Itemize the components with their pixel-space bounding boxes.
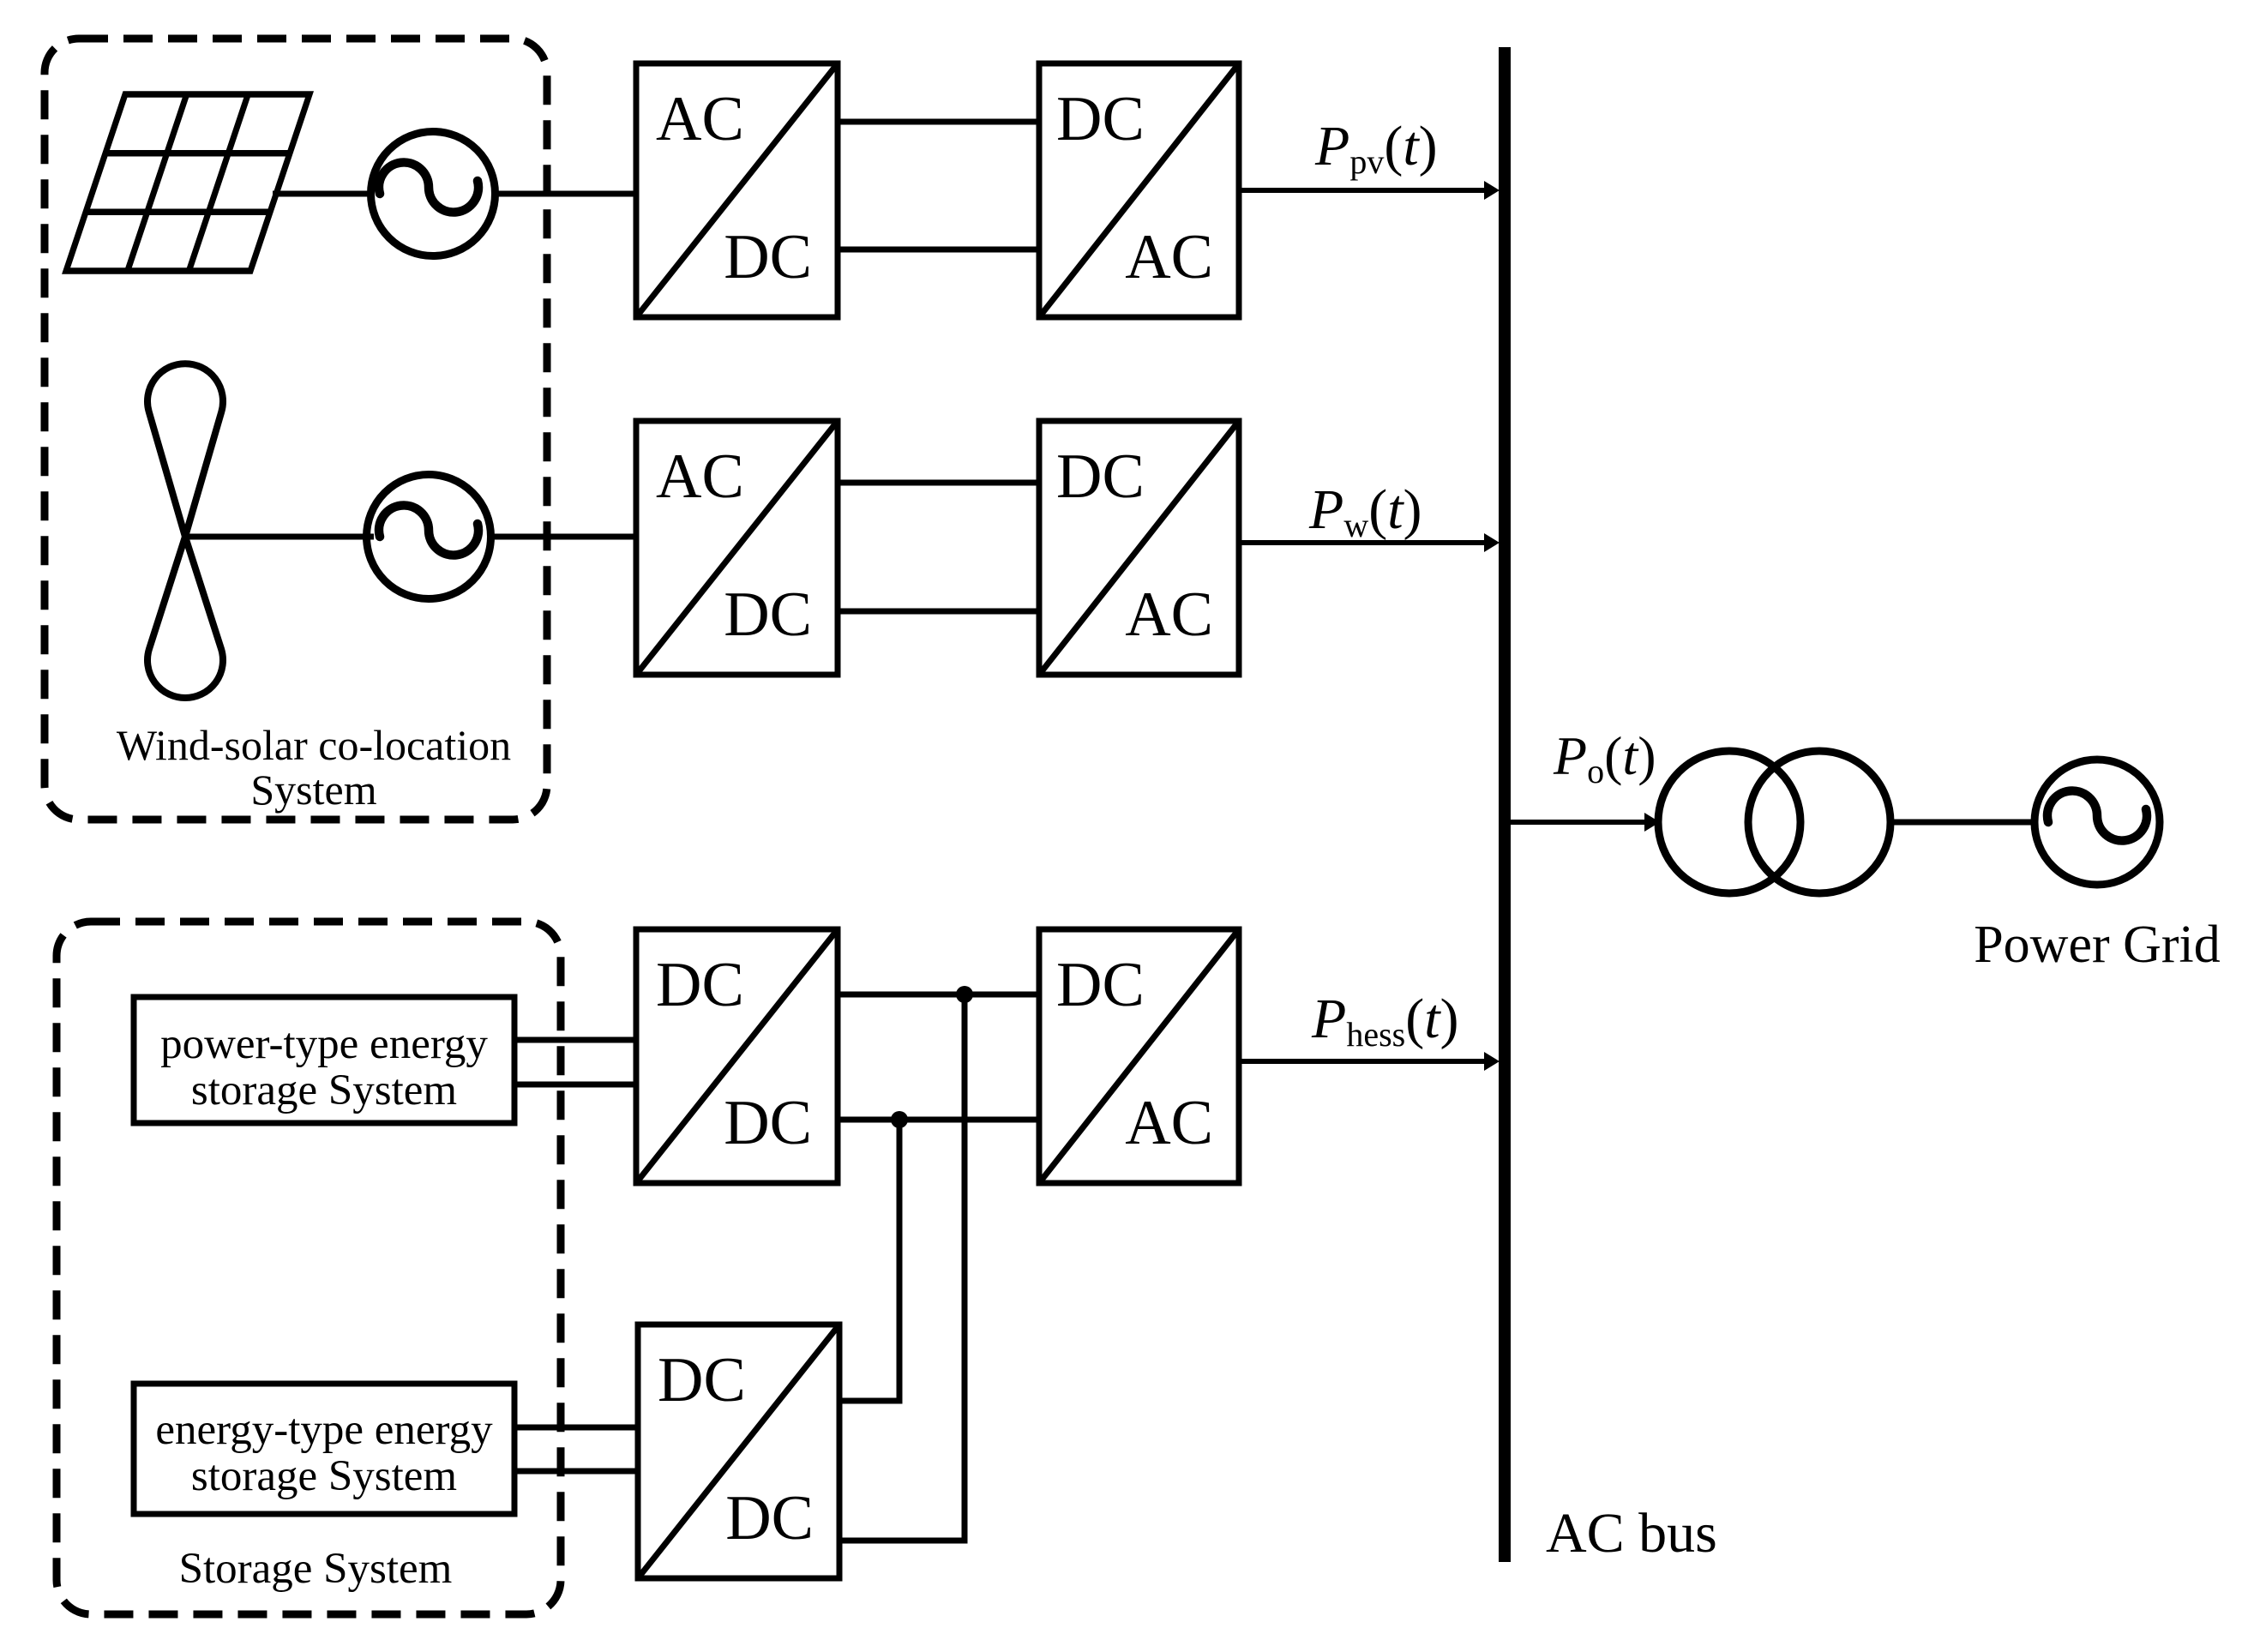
wires: energy-type block to U7 xyxy=(514,1425,640,1431)
svg-text:Storage System: Storage System xyxy=(179,1545,453,1593)
junction node J1 xyxy=(956,986,973,1003)
DC link wires U1-U2 xyxy=(838,119,1039,125)
wire with arrow: P_o(t) from bus to transformer xyxy=(1511,820,1647,825)
wire: J1 down to U7 lower output xyxy=(838,994,965,1541)
converter U6 DC/AC (HESS inverter) xyxy=(1039,929,1239,1183)
wire: G1 to converter U1 xyxy=(495,191,638,197)
generator G1 (PV AC source) xyxy=(371,132,496,256)
svg-text:DC: DC xyxy=(724,222,812,292)
svg-text:DC: DC xyxy=(1056,442,1145,512)
svg-text:AC: AC xyxy=(1125,222,1213,292)
wires: power-type block to U5 xyxy=(514,1037,638,1043)
DC bus wires U5-U6 xyxy=(838,992,1039,998)
svg-text:Wind-solar co-location: Wind-solar co-location xyxy=(117,721,511,769)
wire with arrow: P_pv(t) to AC bus xyxy=(1239,188,1487,193)
wire with arrow: P_w(t) to AC bus xyxy=(1239,540,1487,545)
AC bus bar xyxy=(1499,47,1511,1562)
power-type energy storage block xyxy=(134,997,514,1123)
svg-text:Po(t): Po(t) xyxy=(1553,725,1656,790)
dashed enclosure: Storage System xyxy=(57,922,561,1614)
converter U1 AC/DC (PV rectifier) xyxy=(636,63,838,317)
converter U7 DC/DC (energy-type chopper) xyxy=(638,1325,839,1578)
generator G2 (wind AC source) xyxy=(367,475,491,599)
dashed enclosure: Wind-solar co-location System xyxy=(45,39,547,820)
svg-text:DC: DC xyxy=(724,580,812,650)
svg-text:DC: DC xyxy=(658,1345,746,1415)
energy-type energy storage block xyxy=(134,1384,514,1514)
svg-text:AC: AC xyxy=(656,84,744,154)
svg-text:DC: DC xyxy=(724,1088,812,1158)
svg-text:AC: AC xyxy=(1125,580,1213,650)
wind turbine WT blades xyxy=(147,363,223,698)
svg-text:System: System xyxy=(250,766,376,814)
svg-text:energy-type energy: energy-type energy xyxy=(155,1406,493,1454)
svg-text:AC bus: AC bus xyxy=(1546,1502,1717,1565)
svg-text:DC: DC xyxy=(1056,950,1145,1020)
svg-text:AC: AC xyxy=(656,442,744,512)
utility grid AC source G3 xyxy=(2035,760,2160,885)
solar panel PV array xyxy=(66,94,310,271)
converter U5 DC/DC (power-type chopper) xyxy=(636,929,838,1183)
wire with arrow: P_hess(t) to AC bus xyxy=(1239,1059,1487,1064)
junction node J2 xyxy=(891,1111,908,1128)
svg-text:power-type energy: power-type energy xyxy=(160,1020,488,1068)
converter U4 DC/AC (wind inverter) xyxy=(1039,421,1239,675)
svg-text:DC: DC xyxy=(1056,84,1145,154)
wire: panel to generator G1 xyxy=(273,191,374,197)
converter U2 DC/AC (PV inverter) xyxy=(1039,63,1239,317)
svg-text:AC: AC xyxy=(1125,1088,1213,1158)
wire: hub to generator G2 xyxy=(185,534,374,540)
svg-text:DC: DC xyxy=(656,950,744,1020)
wire: G2 to converter U3 xyxy=(490,534,638,540)
wire: J2 down to U7 upper output xyxy=(838,1120,899,1401)
DC link wires U3-U4 xyxy=(838,480,1039,486)
converter U3 AC/DC (wind rectifier) xyxy=(636,421,838,675)
svg-text:Power Grid: Power Grid xyxy=(1974,916,2221,974)
transformer T1 (two overlapping circles) xyxy=(1658,751,1800,893)
svg-text:DC: DC xyxy=(725,1483,814,1553)
svg-text:storage System: storage System xyxy=(191,1452,457,1500)
wire: transformer to grid source xyxy=(1890,820,2034,826)
svg-text:storage System: storage System xyxy=(191,1066,457,1114)
